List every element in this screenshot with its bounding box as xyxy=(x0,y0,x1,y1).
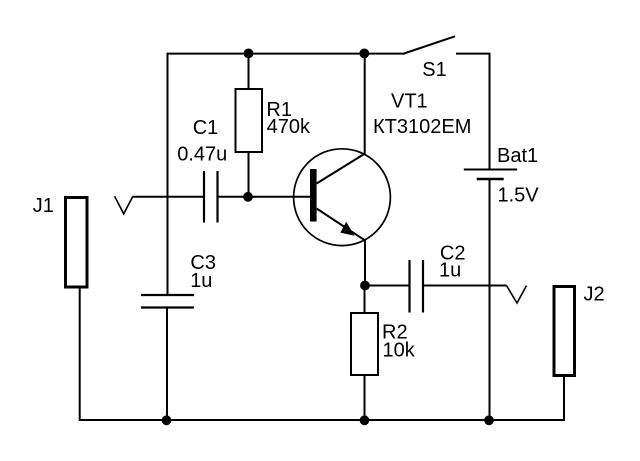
output probe V symbol xyxy=(507,286,527,303)
transistor VT1 circle xyxy=(294,149,391,246)
wire switch right terminal xyxy=(456,53,491,55)
wire C2 to output xyxy=(423,285,507,287)
node base junction xyxy=(243,192,253,202)
node ground R2 junction xyxy=(360,415,370,425)
svg-text:Bat1: Bat1 xyxy=(497,145,538,167)
node emitter junction xyxy=(360,281,370,291)
svg-text:S1: S1 xyxy=(422,59,446,81)
wire C1 to base xyxy=(218,196,311,198)
transistor VT1 base bar xyxy=(310,169,317,222)
svg-text:0.47u: 0.47u xyxy=(177,144,227,166)
transistor VT1 collector stroke xyxy=(317,154,365,184)
svg-text:J2: J2 xyxy=(584,284,605,306)
wire battery bottom lead xyxy=(489,179,491,421)
capacitor C1 xyxy=(204,171,218,223)
wire R1 top lead xyxy=(248,54,250,89)
wire C3 bottom lead xyxy=(166,308,168,422)
capacitor C2 xyxy=(410,260,424,313)
svg-text:VT1: VT1 xyxy=(391,90,428,112)
svg-text:C1: C1 xyxy=(193,117,219,139)
wire battery top lead xyxy=(489,53,491,170)
svg-text:J1: J1 xyxy=(33,195,54,217)
svg-text:1u: 1u xyxy=(439,260,461,282)
wire J2 lead xyxy=(563,376,565,421)
wire input to C1 xyxy=(133,196,204,198)
resistor R2 xyxy=(351,313,378,375)
node top rail / R1 junction xyxy=(244,49,254,59)
transistor VT1 emitter arrow xyxy=(340,222,354,236)
svg-text:470k: 470k xyxy=(267,116,311,138)
wire J1 lead xyxy=(79,286,81,421)
node ground battery junction xyxy=(484,415,494,425)
battery Bat1 positive plate xyxy=(464,169,517,171)
wire left supply branch (top rail to C3) xyxy=(167,53,169,295)
svg-text:1.5V: 1.5V xyxy=(498,184,540,206)
transistor VT1 emitter stroke xyxy=(317,209,366,241)
connector J1 xyxy=(66,198,88,288)
node top rail / collector junction xyxy=(359,49,369,59)
node ground C3 junction xyxy=(162,415,172,425)
resistor R1 xyxy=(236,89,263,152)
wire collector lead xyxy=(364,54,366,155)
wire R2 bottom lead xyxy=(364,375,366,421)
input probe V symbol xyxy=(115,196,133,214)
wire ground bus xyxy=(80,419,564,421)
wire R2 top lead xyxy=(364,286,366,314)
wire top rail xyxy=(168,53,403,55)
connector J2 xyxy=(554,287,575,376)
capacitor C3 xyxy=(141,295,194,308)
wire emitter node to C2 xyxy=(365,285,410,287)
svg-text:1u: 1u xyxy=(190,270,212,292)
svg-text:КТ3102ЕМ: КТ3102ЕМ xyxy=(373,116,471,138)
battery Bat1 negative plate xyxy=(477,178,504,181)
switch S1 blade xyxy=(403,36,456,54)
wire R1 bottom lead xyxy=(248,152,250,197)
svg-text:10k: 10k xyxy=(383,340,416,362)
wire emitter lead xyxy=(364,240,366,286)
